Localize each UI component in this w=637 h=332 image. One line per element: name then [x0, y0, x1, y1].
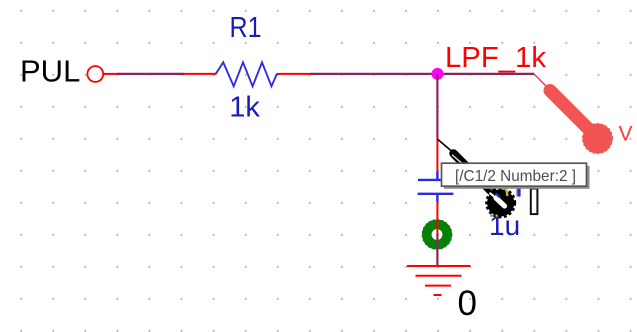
wire junction down to C1	[436, 74, 438, 137]
cursor marker pen body	[454, 154, 500, 200]
wire C1 to ground	[436, 234, 438, 267]
svg-text:V: V	[619, 123, 633, 146]
ground 0 bar 1	[407, 265, 471, 267]
white pen highlight body	[496, 198, 505, 206]
ground 0 bar 3	[425, 285, 451, 287]
yellow fleck bottom	[496, 215, 498, 217]
cursor marker pen tip	[438, 139, 452, 151]
cursor marker pen slit	[452, 155, 464, 165]
wire R1 to junction and to probe corner	[311, 73, 534, 75]
ground 0 bar 4	[434, 294, 442, 296]
tooltip box	[442, 163, 587, 186]
capacitor C1 bottom plate	[418, 193, 454, 195]
resistor R1 right lead	[277, 73, 311, 75]
svg-text:R1: R1	[230, 12, 262, 44]
capacitor C1 bottom stub	[436, 194, 438, 202]
svg-text:LPF_1k: LPF_1k	[445, 42, 546, 74]
resistor R1 zigzag	[216, 62, 277, 86]
voltage probe bulb	[583, 124, 613, 154]
busy gear teeth	[487, 189, 515, 217]
resistor R1 left lead	[184, 73, 217, 75]
current marker donut	[427, 224, 447, 244]
ground 0 bar 2	[416, 275, 462, 277]
capacitor C1 bottom lead	[436, 201, 438, 234]
busy gear disc	[487, 189, 514, 216]
voltage probe attach line	[535, 75, 550, 90]
yellow fleck top	[504, 188, 508, 197]
svg-text:0: 0	[458, 284, 477, 323]
green fleck top	[491, 188, 493, 190]
junction dot	[432, 68, 444, 80]
C1 refdes fragment	[517, 188, 520, 197]
svg-text:1k: 1k	[229, 92, 260, 124]
voltage probe body	[550, 91, 592, 133]
capacitor C1 top plate	[418, 179, 456, 181]
wire PUL to R1	[117, 73, 184, 75]
capacitor C1 top stub	[436, 172, 438, 180]
ghost outline rectangle	[531, 189, 538, 215]
green fleck bottom	[491, 215, 493, 217]
blue fleck	[496, 194, 500, 198]
port PUL pin circle	[87, 66, 103, 82]
tooltip shadow	[444, 166, 590, 189]
port PUL pin stub	[104, 73, 118, 75]
capacitor C1 top lead	[436, 137, 438, 173]
white pen highlight tip	[490, 193, 495, 197]
svg-text:PUL: PUL	[20, 54, 80, 89]
svg-text:[/C1/2 Number:2 ]: [/C1/2 Number:2 ]	[455, 168, 576, 185]
